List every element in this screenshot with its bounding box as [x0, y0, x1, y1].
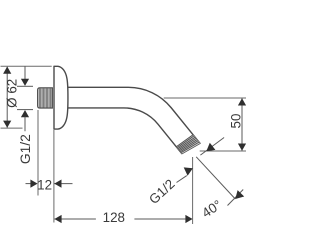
angle 40 plane leader D2	[200, 138, 224, 156]
dimension 128 arrow left-pointing	[54, 215, 61, 223]
dimension G1/2 wall tick bottom	[17, 109, 33, 111]
dimension G1/2 wall arrow down	[21, 79, 29, 86]
svg-text:50: 50	[228, 114, 243, 129]
dimension 50 arrow down	[238, 144, 246, 151]
svg-text:G1/2: G1/2	[146, 176, 177, 207]
dimension O62 arrow down	[3, 121, 11, 128]
dimension 12 extension line left	[37, 110, 39, 196]
escutcheon flange	[54, 66, 68, 129]
dimension O62 extension line top	[1, 65, 52, 67]
angle 40 axis leader D1	[196, 157, 235, 199]
dimension O62 extension line bottom	[1, 127, 23, 129]
dimension G1/2 outlet leader	[177, 176, 187, 183]
dimension G1/2 wall stub upper	[24, 66, 26, 79]
angle 40 axis arrow	[235, 190, 244, 199]
dimension 128 arrow right-pointing	[185, 215, 192, 223]
svg-text:128: 128	[103, 210, 125, 225]
dimension G1/2 wall arrow up	[21, 110, 29, 117]
svg-text:G1/2: G1/2	[18, 134, 33, 164]
outlet thread G1/2 hatch	[176, 135, 200, 154]
svg-text:Ø 62: Ø 62	[4, 79, 19, 108]
dimension 128 line right part	[134, 218, 192, 220]
wall thread G1/2	[38, 88, 53, 108]
dimension 12 extension line right	[53, 130, 55, 223]
angle 40 vertical reference line	[192, 157, 194, 224]
dimension G1/2 wall stub lower	[24, 117, 26, 131]
dimension 128 line left part	[55, 218, 96, 220]
dimension 50 extension line top	[164, 97, 246, 99]
dimension G1/2 wall tick top	[17, 85, 33, 87]
dimension 12 arrow left-pointing	[54, 180, 61, 188]
angle 40 plane arrow	[206, 143, 215, 152]
dimension G1/2 outlet arrow	[184, 167, 193, 175]
dimension 12 arrow right-pointing	[30, 180, 37, 188]
shower arm body	[60, 87, 200, 153]
dimension O62 arrow up	[3, 67, 11, 74]
dimension 12 tail right	[54, 183, 72, 185]
dimension O62 line	[6, 67, 8, 128]
svg-text:40°: 40°	[199, 197, 224, 221]
dimension 12 tail left	[26, 183, 32, 185]
angle 40 axis slash	[228, 190, 244, 206]
dimension 50 extension line bottom	[200, 150, 246, 152]
svg-text:12: 12	[37, 177, 52, 192]
dimension 50 arrow up	[238, 98, 246, 105]
dimension 50 line	[241, 99, 243, 151]
